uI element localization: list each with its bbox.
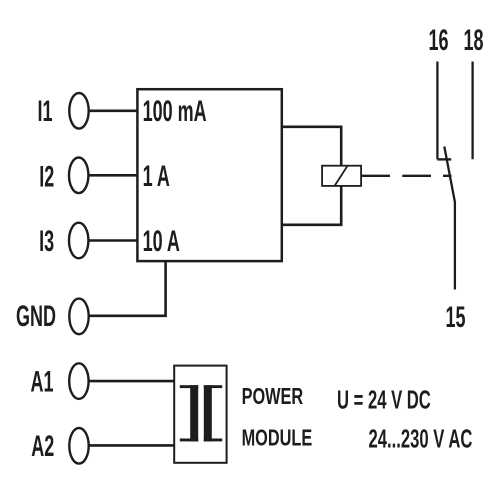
transformer symbol secondary winding — [204, 385, 222, 441]
svg-text:POWER: POWER — [242, 384, 304, 409]
wire A2 to power module — [89, 444, 174, 447]
wire module to coil top — [283, 127, 341, 165]
power module box — [174, 366, 226, 463]
terminal I2 — [69, 158, 88, 194]
contact 18 lead — [471, 62, 473, 160]
svg-text:GND: GND — [16, 301, 56, 334]
contact 16 lead — [436, 62, 438, 160]
svg-text:1 A: 1 A — [143, 161, 170, 194]
svg-text:16: 16 — [428, 25, 448, 58]
contact moving arm to 15 — [444, 147, 455, 290]
svg-text:I2: I2 — [39, 161, 54, 194]
svg-text:24...230 V AC: 24...230 V AC — [369, 424, 473, 454]
svg-text:10 A: 10 A — [143, 225, 180, 258]
transformer symbol primary winding — [180, 385, 198, 441]
svg-text:18: 18 — [463, 25, 483, 58]
svg-text:MODULE: MODULE — [242, 426, 313, 451]
wire A1 to power module — [89, 380, 174, 383]
relay coil K1 — [322, 166, 361, 186]
terminal A2 — [69, 428, 88, 464]
wire I3 to module — [88, 239, 136, 242]
wire module to coil bottom — [283, 186, 341, 224]
terminal I3 — [69, 223, 88, 259]
mechanical link (dashed) — [362, 175, 452, 177]
wire I1 to module — [89, 110, 137, 113]
measuring module box — [137, 89, 281, 261]
svg-text:A2: A2 — [31, 431, 54, 464]
svg-text:U = 24 V DC: U = 24 V DC — [337, 385, 431, 415]
wire I2 to module — [88, 174, 136, 177]
svg-text:15: 15 — [445, 302, 465, 335]
contact 16 fixed tick — [437, 158, 451, 160]
wire GND to module bottom — [89, 262, 166, 316]
svg-text:100 mA: 100 mA — [143, 96, 207, 129]
svg-text:I3: I3 — [39, 225, 54, 258]
svg-text:I1: I1 — [37, 96, 52, 129]
terminal A1 — [69, 363, 88, 399]
terminal GND — [69, 299, 88, 335]
svg-text:A1: A1 — [31, 366, 54, 399]
terminal I1 — [69, 93, 88, 129]
